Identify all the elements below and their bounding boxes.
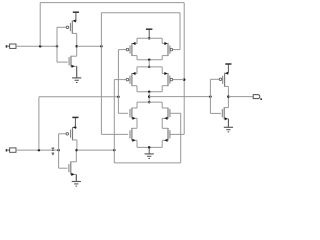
power VDD symbol of U1 xyxy=(73,12,79,21)
wire U2 pmos gate stub xyxy=(59,133,66,135)
pmos M3 of inverter U2 xyxy=(71,126,77,141)
pmos M9 of inverter U3 xyxy=(223,72,229,87)
wire pair3 top rail xyxy=(137,101,162,103)
node pair1 bottom junction xyxy=(148,58,151,61)
wire Abar to nmos M7 gate xyxy=(101,133,128,135)
node pair4 ground junction xyxy=(148,146,151,149)
wire pair2 bottom rail xyxy=(137,91,162,93)
wire pair2 right side bottom xyxy=(161,86,163,92)
pmos pair1 left gate bubble xyxy=(126,48,129,51)
node A at U1 gate column xyxy=(56,45,59,48)
power VDD symbol of U2 xyxy=(72,117,78,127)
wire pair2 top rail xyxy=(137,66,162,68)
wire U1 nmos source xyxy=(76,66,78,78)
nmos M5 left of pair3 xyxy=(130,108,137,120)
wire pair1 left side top xyxy=(136,38,138,43)
wire pair1 left side bottom xyxy=(136,56,138,60)
wire A right drop xyxy=(183,3,185,135)
wire B run to gates xyxy=(39,96,119,98)
wire Bbar east riser xyxy=(180,113,182,163)
wire Abar drop to pair1 right gate xyxy=(179,13,181,50)
wire Abar riser up xyxy=(100,13,102,47)
node Bbar riser junction xyxy=(113,149,116,152)
pin A label xyxy=(6,45,8,48)
node Bbar at U2 drain xyxy=(75,149,78,152)
input pin B xyxy=(7,148,16,152)
wire Bbar bottom run xyxy=(114,162,180,164)
nmos M8 right of pair4 xyxy=(162,128,170,142)
pmos M1 of inverter U1 xyxy=(70,19,76,34)
wire pair3 right side top xyxy=(161,102,163,108)
node B at gate riser xyxy=(117,96,120,99)
wire U3 output column xyxy=(227,86,229,107)
wire Abar from U1 to riser xyxy=(77,45,102,47)
wire U2 nmos gate stub xyxy=(59,167,68,169)
wire pair1 top rail xyxy=(137,37,162,39)
pmos pair1 right gate bubble xyxy=(170,48,173,51)
nmos M6 right of pair3 xyxy=(162,108,170,120)
wire nmos M5 gate stub xyxy=(118,112,128,114)
wire pair4 left side bottom xyxy=(136,140,138,147)
ground symbol of U3 xyxy=(224,119,233,132)
wire B riser up xyxy=(38,97,40,150)
wire nmos M6 gate stub xyxy=(170,112,180,114)
wire U2 output column xyxy=(76,140,78,150)
wire pair2 right side top xyxy=(161,67,163,74)
node pair1 top rail junction xyxy=(148,37,151,40)
pmos pair2 right gate bubble xyxy=(170,78,173,81)
node A at pair2 right gate xyxy=(183,78,186,81)
node Y at U3 gate column xyxy=(209,95,212,98)
wire pair2 right gate stub xyxy=(172,79,184,81)
wire net Y to U3 xyxy=(149,96,210,98)
power VDD symbol of U3 xyxy=(225,64,231,73)
wire B riser to nmos M5 gate xyxy=(117,97,119,114)
pmos P2 right of pair1 xyxy=(162,42,170,56)
nmos M10 of inverter U3 xyxy=(222,107,228,120)
wire pair1 right side top xyxy=(161,38,163,43)
node out at U3 drain xyxy=(227,95,230,98)
wire pair1 right side bottom xyxy=(161,56,163,60)
node Abar at U1 drain xyxy=(75,45,78,48)
node B at U2 gate column xyxy=(57,149,60,152)
wire U1 nmos gate stub xyxy=(57,61,68,63)
wire U3 pmos gate stub xyxy=(210,78,219,80)
wire U3 nmos gate stub xyxy=(210,112,221,114)
wire pair1 left gate stub xyxy=(118,49,126,51)
wire output to pin xyxy=(228,96,253,98)
nmos M2 of inverter U1 xyxy=(69,56,77,68)
wire A top rail xyxy=(40,2,184,4)
pmos M9 gate bubble xyxy=(219,78,222,81)
wire pair1 bottom rail xyxy=(137,59,162,61)
wire net A pin to U1 gate xyxy=(16,45,57,47)
node pair2 top junction xyxy=(148,66,151,69)
wire A riser to top xyxy=(39,3,41,47)
pmos P4 right of pair2 xyxy=(162,72,170,86)
wire A to nmos M8 gate xyxy=(170,133,184,135)
wire pair4 right side bottom xyxy=(161,140,163,147)
node B riser junction xyxy=(38,149,41,152)
node Abar riser junction xyxy=(100,45,103,48)
pmos M3 gate bubble xyxy=(66,133,69,136)
node A riser junction xyxy=(39,45,42,48)
wire pair2 left side bottom xyxy=(136,86,138,92)
output pin label xyxy=(260,98,262,100)
wire Bbar from U2 to riser xyxy=(77,149,115,151)
ground symbol of pair network xyxy=(145,147,154,158)
wire right branch series connector xyxy=(161,118,163,128)
node pair2 bottom junction xyxy=(148,91,151,94)
wire pair2 left side top xyxy=(136,67,138,74)
wire node Y connector xyxy=(148,92,150,102)
pmos P1 left of pair1 xyxy=(130,42,137,56)
wire pair3 left side top xyxy=(136,102,138,108)
nmos M7 left of pair4 xyxy=(130,128,137,142)
wire B riser to pair1 left gate xyxy=(117,50,119,97)
wire pair4 bottom rail xyxy=(137,146,162,148)
wire Bbar riser xyxy=(113,80,115,163)
wire U1 output column xyxy=(76,33,78,56)
wire left branch series connector xyxy=(136,118,138,128)
pmos P3 left of pair2 xyxy=(130,72,137,86)
power VDD symbol of pair network xyxy=(146,29,152,38)
pmos M1 gate bubble xyxy=(66,26,69,29)
wire pair2 left gate stub xyxy=(114,79,126,81)
wire U1 gate column xyxy=(56,27,58,62)
net B wire label xyxy=(52,148,55,155)
output pin xyxy=(253,95,260,99)
node pair3 top junction xyxy=(148,101,151,104)
wire U2 gate column xyxy=(58,134,60,168)
ground symbol of U2 xyxy=(72,174,81,186)
wire net B pin to U2 gate xyxy=(16,149,59,151)
wire U1 pmos gate stub xyxy=(57,26,66,28)
input pin A xyxy=(7,44,16,48)
nmos M4 of inverter U2 xyxy=(69,161,76,176)
wire U2 nmos source xyxy=(75,174,77,181)
node Y tap junction xyxy=(148,95,151,98)
ground symbol of U1 xyxy=(72,66,81,82)
pmos pair2 left gate bubble xyxy=(126,78,129,81)
pin B label xyxy=(6,149,8,152)
wire pair1 right gate stub xyxy=(172,49,180,51)
wire U3 nmos source xyxy=(227,119,229,128)
wire Abar top run xyxy=(101,12,180,14)
wire Abar riser down xyxy=(100,46,102,134)
wire pair1-pair2 connector xyxy=(148,60,150,67)
wire U3 gate column xyxy=(209,79,211,113)
